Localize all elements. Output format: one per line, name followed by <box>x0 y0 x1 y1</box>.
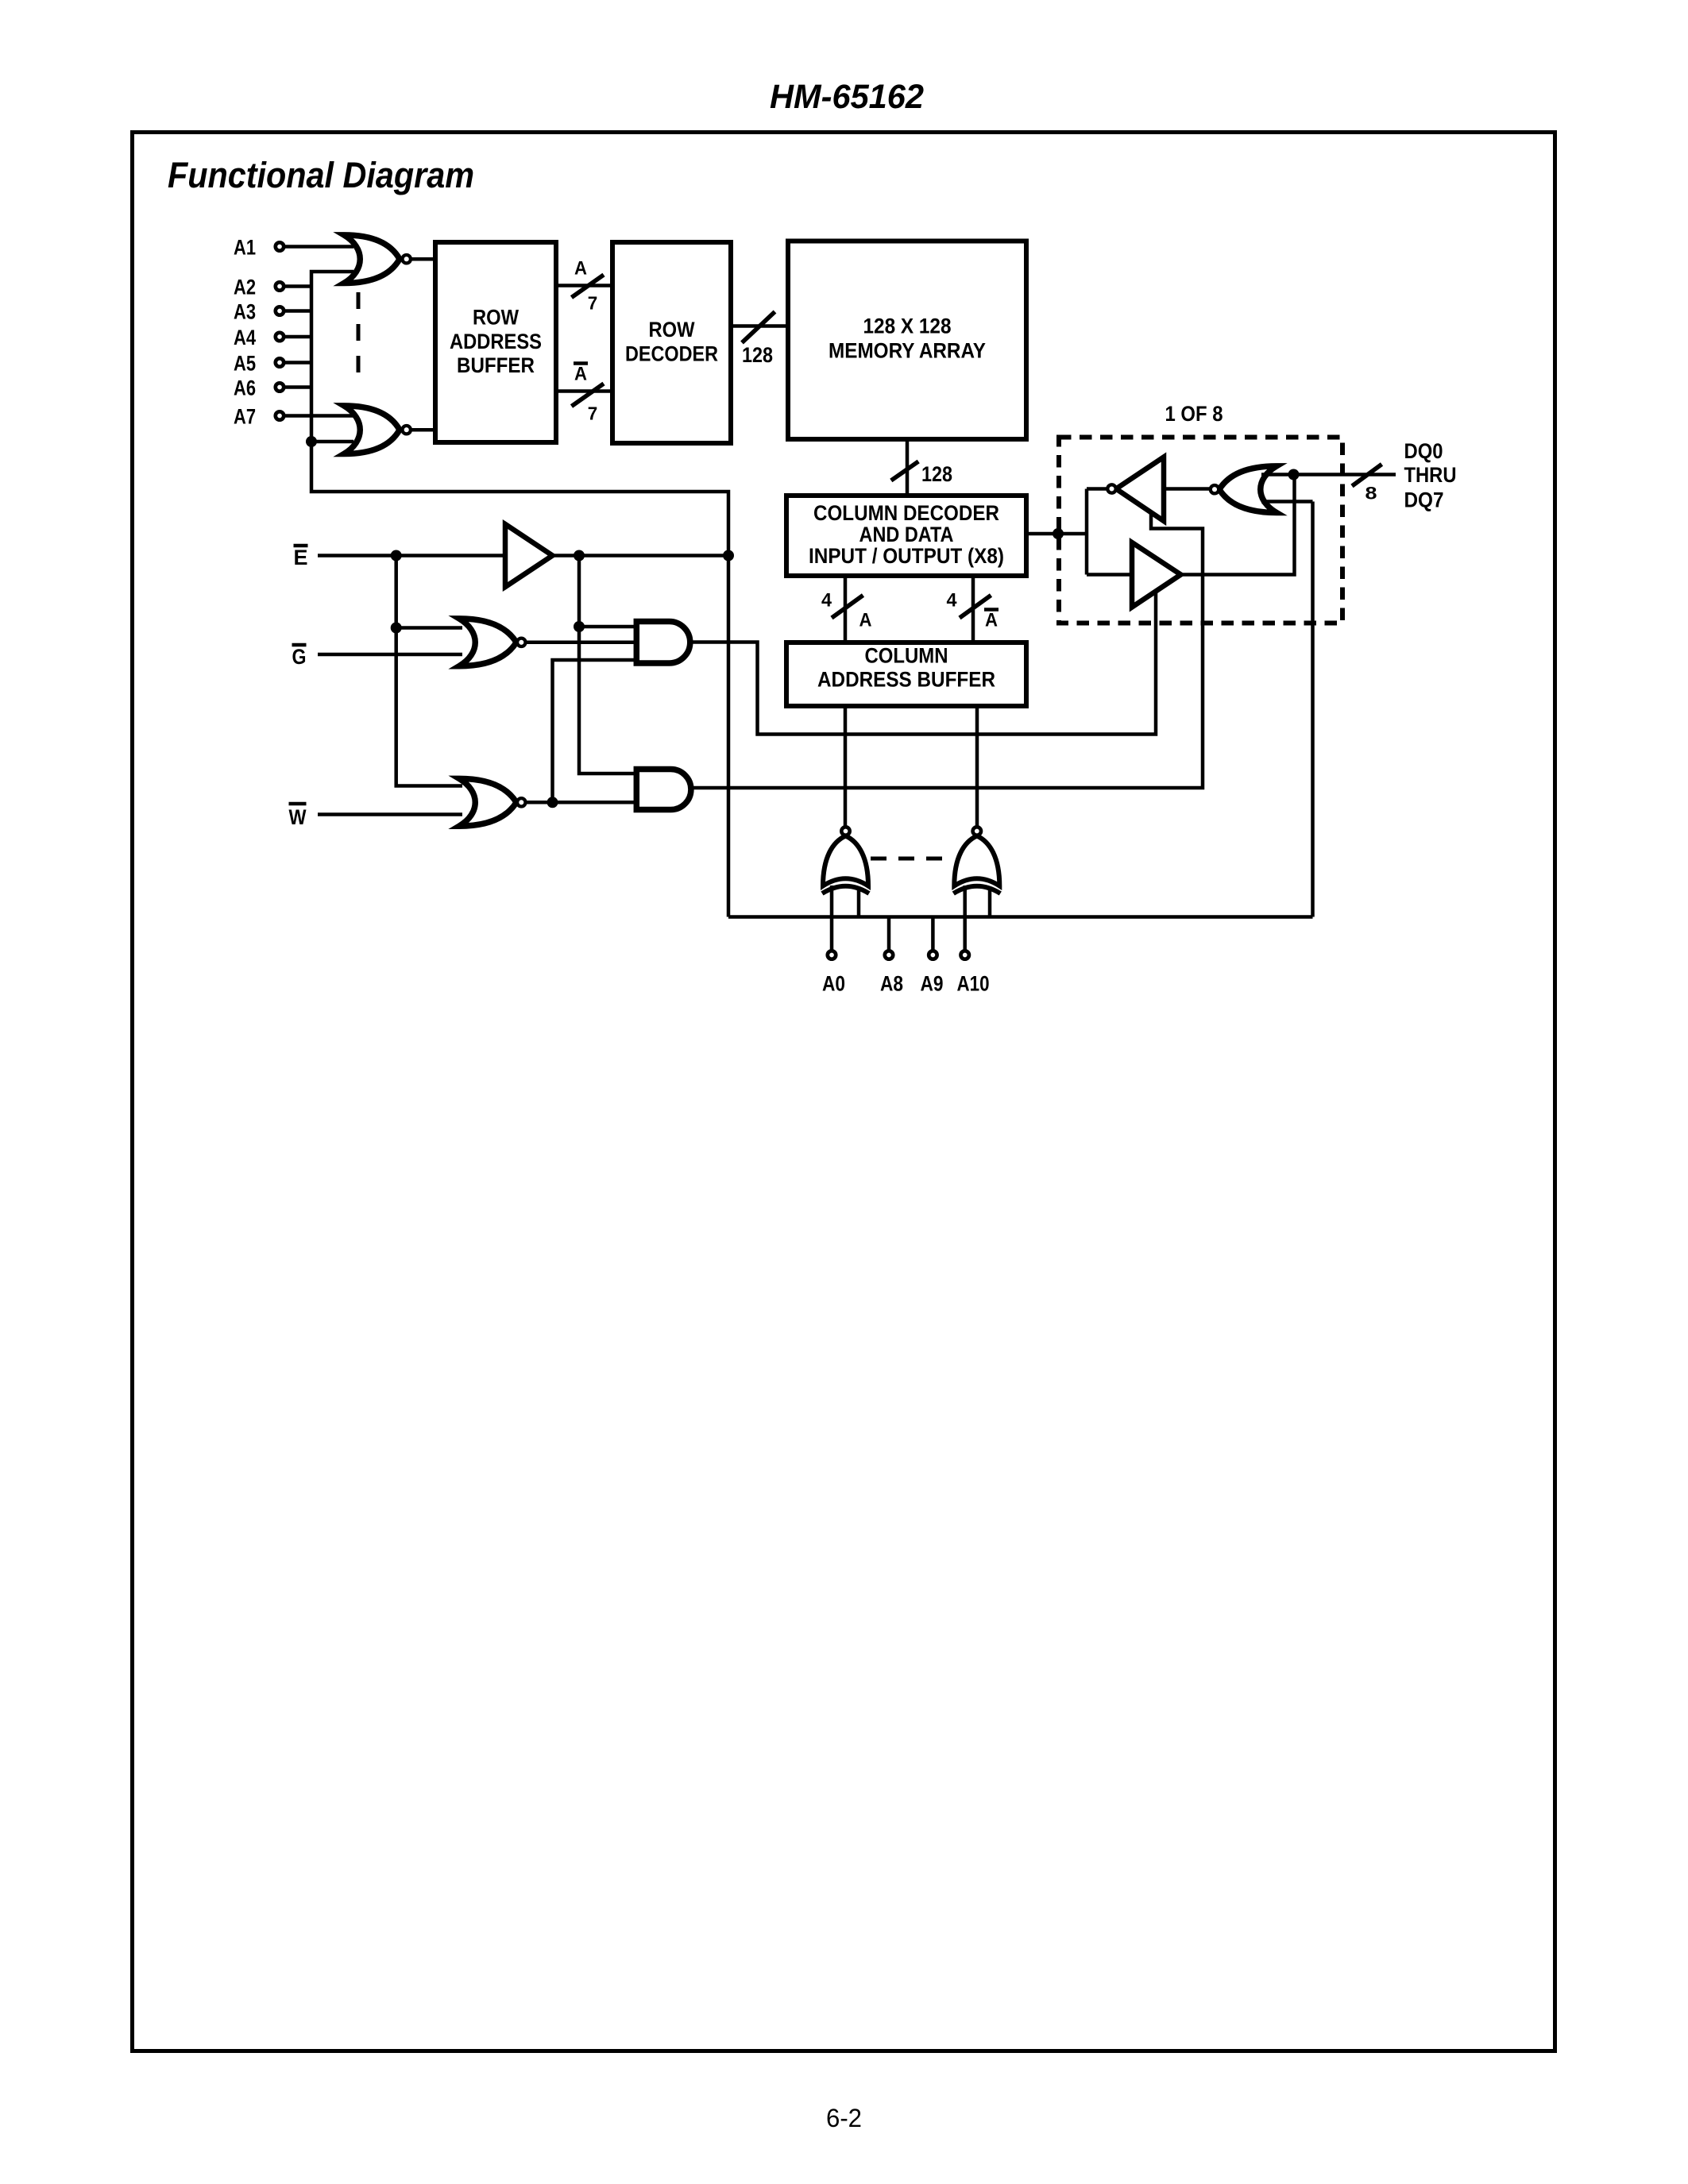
svg-text:6-2: 6-2 <box>826 2104 862 2132</box>
label A-not (column address) <box>984 610 999 631</box>
wire A8 stub <box>887 917 891 951</box>
svg-text:DQ7: DQ7 <box>1404 488 1444 512</box>
XNOR gate G8 (A10/A9 compare) <box>953 827 1000 893</box>
terminal A4 <box>234 326 284 349</box>
wire G6 bottom input from E bus <box>1261 500 1313 504</box>
wire A6 to trunk <box>284 385 314 389</box>
svg-text:A2: A2 <box>234 276 256 299</box>
label A (column address) <box>859 610 872 631</box>
svg-text:MEMORY ARRAY: MEMORY ARRAY <box>829 339 986 363</box>
svg-text:A: A <box>574 258 587 280</box>
svg-text:4: 4 <box>947 590 958 612</box>
svg-text:A: A <box>859 610 872 631</box>
node E joins latch trunk <box>723 550 734 561</box>
label 8 (DQ width) <box>1365 484 1377 504</box>
page number 6-2 <box>826 2104 862 2132</box>
slash 128 row lines <box>742 312 775 343</box>
wire I/O riser to inverter and buffer <box>1087 489 1132 575</box>
svg-text:A10: A10 <box>957 972 990 996</box>
wire XNOR G8 left input to A10 <box>963 886 967 951</box>
svg-text:A5: A5 <box>234 352 256 376</box>
svg-text:1 OF 8: 1 OF 8 <box>1165 402 1223 426</box>
wire A3 to trunk <box>284 309 314 313</box>
buffer U3 (E buffer) <box>505 524 553 587</box>
terminal A5 <box>234 352 284 376</box>
label 128 (column lines) <box>921 462 952 486</box>
node I/O junction <box>1053 528 1064 539</box>
dashed box 1 OF 8 cell <box>1059 438 1342 623</box>
svg-text:8: 8 <box>1365 484 1377 504</box>
svg-text:7: 7 <box>588 403 598 424</box>
svg-text:7: 7 <box>588 293 598 314</box>
svg-text:HM-65162: HM-65162 <box>770 78 924 116</box>
terminal A6 <box>234 376 284 400</box>
terminal A9 <box>921 951 944 995</box>
slash 4 A-not lines <box>960 596 991 619</box>
label 4 (A-not lines) <box>947 590 958 612</box>
NOR gate G6 (data input, points left) <box>1211 466 1277 513</box>
heading Functional Diagram <box>168 155 474 195</box>
wire W input line <box>318 812 462 816</box>
svg-text:A: A <box>985 610 998 631</box>
svg-text:128: 128 <box>742 343 773 367</box>
svg-text:W: W <box>289 805 307 829</box>
svg-text:A6: A6 <box>234 376 256 400</box>
label W-not input <box>289 804 307 829</box>
wire E branch to AND gates <box>579 556 639 774</box>
wire XNOR G8 right input to bus <box>988 887 992 917</box>
wire DQ pad line <box>1294 473 1396 477</box>
wire G6 top input from DQ node <box>1261 473 1294 477</box>
node E branch 1 <box>391 550 402 561</box>
svg-text:A8: A8 <box>880 972 903 996</box>
wire XNOR G7 left input to A0 <box>830 886 834 951</box>
wire W-NOR output to AND G5 <box>526 801 640 805</box>
label 7 (A-not bus width) <box>588 403 598 424</box>
wire A5 to trunk <box>284 361 314 365</box>
wire row decoder to memory array <box>731 324 788 328</box>
wire E branch to G/W gates <box>396 556 462 786</box>
wire E buffer output <box>553 554 729 558</box>
terminal A3 <box>234 300 284 324</box>
svg-text:BUFFER: BUFFER <box>457 353 535 377</box>
wire write-enable (AND G5 output to inverter U1 enable) <box>691 514 1203 788</box>
svg-text:A7: A7 <box>234 405 256 429</box>
wire A1 to gate G1 <box>284 245 354 249</box>
label 4 (A lines) <box>821 590 832 612</box>
label G-not input <box>292 645 307 669</box>
wire buffer U2 output to DQ node <box>1181 475 1295 575</box>
NOR gate G1 (A1 latch) <box>344 235 411 284</box>
wire A4 to trunk <box>284 335 314 339</box>
svg-text:COLUMN DECODER: COLUMN DECODER <box>813 501 999 525</box>
node E to AND G4 branch <box>574 621 585 632</box>
terminal A2 <box>234 276 284 299</box>
node E branch 2 <box>574 550 585 561</box>
wire 4/A (column decoder to column address buffer) <box>844 576 848 642</box>
NOR gate G3b (write enable) <box>459 778 526 826</box>
svg-text:128: 128 <box>921 462 952 486</box>
wire E bus riser (right side) <box>1311 502 1315 917</box>
label DQ0 THRU DQ7 <box>1404 439 1457 512</box>
NOR gate G3 (output enable) <box>459 619 526 666</box>
wire address test bus (E to XNOR gates and G6) <box>728 915 1313 919</box>
svg-text:ADDRESS BUFFER: ADDRESS BUFFER <box>817 668 995 692</box>
wire 4/A-not (column decoder to column address buffer) <box>971 576 975 642</box>
svg-text:A: A <box>574 364 587 385</box>
svg-text:A3: A3 <box>234 300 256 324</box>
wire G1 output to row address buffer <box>411 257 437 261</box>
slash A-not bus width <box>572 384 605 407</box>
svg-text:INPUT / OUTPUT (X8): INPUT / OUTPUT (X8) <box>809 544 1004 568</box>
node E to G gate branch <box>391 623 402 634</box>
node DQ junction <box>1288 469 1300 480</box>
wire A bus (row address buffer to row decoder) <box>556 284 612 287</box>
svg-text:AND DATA: AND DATA <box>859 523 954 546</box>
wire column address buffer to XNOR gate G8 <box>975 706 979 827</box>
slash 8 DQ lines <box>1352 465 1382 487</box>
slash 4 A lines <box>832 596 863 619</box>
svg-text:G: G <box>292 645 307 669</box>
block ROW DECODER <box>612 242 731 443</box>
title HM-65162 <box>770 78 924 116</box>
label 1 OF 8 <box>1165 402 1223 426</box>
label E-not input <box>294 546 308 569</box>
svg-text:128 X 128: 128 X 128 <box>863 314 952 338</box>
svg-text:ROW: ROW <box>649 318 695 341</box>
block 128 X 128 MEMORY ARRAY <box>788 241 1026 440</box>
terminal A7 <box>234 405 284 429</box>
border frame <box>133 133 1555 2051</box>
label 7 (A bus width) <box>588 293 598 314</box>
svg-text:ADDRESS: ADDRESS <box>450 330 542 353</box>
AND gate G4 (read enable) <box>636 622 689 664</box>
wire W-NOR branch up to AND G4 <box>553 660 640 802</box>
slash 128 column lines <box>891 461 918 480</box>
svg-text:A4: A4 <box>234 326 256 349</box>
wire A7 to gate G2 <box>284 414 354 418</box>
terminal A1 <box>234 236 284 260</box>
wire NOR G6 output to inverter U1 input <box>1164 487 1211 491</box>
dashed abbreviation line between XNOR gates <box>871 857 953 861</box>
svg-text:DQ0: DQ0 <box>1404 439 1443 463</box>
wire G3 output to AND G4 <box>526 641 640 645</box>
wire A2 to trunk <box>284 284 314 288</box>
slash A bus width <box>572 275 605 298</box>
AND gate G5 (write enable) <box>636 770 691 810</box>
svg-text:A0: A0 <box>822 972 845 996</box>
terminal A8 <box>880 951 903 995</box>
node W-NOR output branch <box>547 797 558 808</box>
svg-text:ROW: ROW <box>473 306 519 330</box>
svg-text:4: 4 <box>821 590 832 612</box>
dashed abbreviation line between address gates <box>357 292 361 383</box>
svg-text:DECODER: DECODER <box>625 342 718 366</box>
node trunk junction at A7 gate <box>306 436 353 447</box>
label A-not bus <box>574 364 588 385</box>
wire E input line <box>318 554 505 558</box>
block COLUMN DECODER AND DATA INPUT/OUTPUT (X8) <box>786 496 1026 576</box>
svg-text:A9: A9 <box>921 972 944 996</box>
wire G input line <box>318 653 462 657</box>
wire XNOR G7 right input to bus <box>857 887 861 917</box>
svg-text:E: E <box>294 546 308 569</box>
wire A-not bus (row address buffer to row decoder) <box>556 389 612 393</box>
svg-text:Functional Diagram: Functional Diagram <box>168 155 474 195</box>
wire G2 output to row address buffer <box>411 428 437 432</box>
block COLUMN ADDRESS BUFFER <box>786 642 1026 706</box>
svg-text:A1: A1 <box>234 236 256 260</box>
terminal A10 <box>957 951 990 995</box>
block ROW ADDRESS BUFFER <box>435 242 556 442</box>
wire A9 stub <box>931 917 935 951</box>
label A bus <box>574 258 587 280</box>
svg-text:COLUMN: COLUMN <box>865 644 948 668</box>
NOR gate G2 (A7 latch) <box>344 406 411 454</box>
wire memory array to column decoder <box>906 439 910 496</box>
wire E-latch trunk <box>311 272 728 917</box>
wire column decoder I/O to 1-of-8 cell <box>1026 532 1087 536</box>
terminal A0 <box>822 951 845 995</box>
label 128 (row lines) <box>742 343 773 367</box>
wire read-enable (AND G4 output to buffer U2 enable) <box>690 592 1156 735</box>
XNOR gate G7 (A0/A8 compare) <box>822 827 869 893</box>
wire column address buffer to XNOR gate G7 <box>844 706 848 827</box>
tri-state buffer U2 (read path, points right) <box>1132 542 1181 608</box>
tri-state inverter U1 (write path, points left) <box>1107 457 1164 522</box>
svg-text:THRU: THRU <box>1404 463 1457 487</box>
